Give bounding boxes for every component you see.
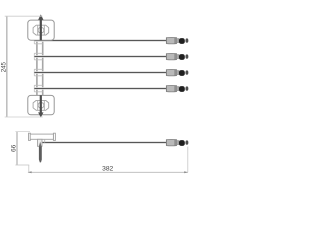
svg-text:382: 382 bbox=[102, 166, 113, 173]
svg-text:66: 66 bbox=[10, 144, 17, 152]
svg-text:245: 245 bbox=[1, 62, 8, 73]
